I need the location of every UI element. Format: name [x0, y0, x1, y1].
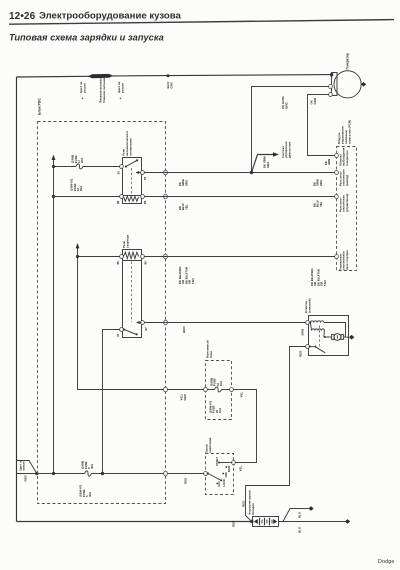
- node bus1 to feed row: [52, 472, 55, 475]
- svg-text:(выход): (выход): [345, 175, 349, 186]
- svg-text:RED: RED: [299, 350, 303, 357]
- svg-text:YEL: YEL: [184, 204, 188, 210]
- junction block dashed box: [206, 361, 232, 420]
- svg-text:Генератор: Генератор: [346, 53, 350, 69]
- pin PCM ASD relay control: [335, 194, 339, 198]
- svg-text:указан: указан: [82, 83, 86, 93]
- wire starter feed RED from battery: [246, 347, 307, 522]
- svg-text:START: START: [215, 457, 219, 466]
- arrow bus 1 continuation up: [52, 155, 56, 160]
- wire PDC bus 1 vertical: [53, 157, 55, 474]
- label fuse (1998) FUSE 15 10A: [210, 378, 224, 386]
- svg-text:зажигания: зажигания: [208, 437, 212, 453]
- svg-text:BRN: BRN: [301, 329, 305, 336]
- label wire DK GRN at riser: [310, 98, 318, 105]
- svg-text:+: +: [82, 97, 84, 101]
- wire left border feed down: [16, 77, 18, 522]
- node splice on top rail: [167, 74, 170, 77]
- wire to motor: [325, 336, 332, 338]
- pin junction block out: [230, 387, 234, 391]
- node junction to generator field: [250, 171, 253, 174]
- svg-text:агрегатом (PCM): агрегатом (PCM): [348, 120, 352, 144]
- svg-text:GRY: GRY: [170, 82, 174, 88]
- svg-text:RED: RED: [183, 393, 187, 400]
- label ignition switch name: [205, 437, 213, 453]
- wire PDC bus 2 vertical: [78, 246, 205, 390]
- label PCM name: [337, 120, 352, 144]
- label fuse (1996-97) FUSE 20 10A: [209, 401, 223, 413]
- svg-text:40A: 40A: [88, 492, 92, 497]
- svg-text:генератора: генератора: [345, 150, 349, 166]
- svg-text:указан: указан: [22, 461, 26, 470]
- svg-text:87: 87: [143, 176, 147, 180]
- label wire DK GRN/ORG: [178, 179, 188, 186]
- svg-text:отключения: отключения: [129, 138, 133, 156]
- wire K2 87 to starter solenoid BRN: [144, 322, 306, 324]
- node bus2 to starter relay coil row: [76, 255, 79, 258]
- starter solenoid pull-in winding: [310, 321, 324, 323]
- header rule: [9, 20, 394, 25]
- wire battery feed top rail (B+): [17, 75, 332, 77]
- svg-text:30: 30: [117, 171, 121, 175]
- label wire YEL/RED before junction block: [180, 393, 188, 400]
- label wire DK BLU/YEL at PCM: [313, 200, 323, 207]
- generator G1 body: [334, 71, 361, 98]
- node ignition RUN position: [225, 466, 227, 468]
- svg-text:двигателем: двигателем: [287, 142, 291, 158]
- node ignition START position: [218, 462, 220, 464]
- pin K1 30: [120, 164, 124, 168]
- svg-text:YEL: YEL: [239, 465, 243, 471]
- label wire DK GRN/ORG at branch: [263, 156, 270, 168]
- node junction starter relay feed: [101, 472, 104, 475]
- svg-text:Электрооборудование кузова: Электрооборудование кузова: [39, 11, 182, 22]
- label branch color not specified: [19, 459, 26, 475]
- svg-text:20A: 20A: [80, 158, 84, 163]
- pin PCM starter relay control: [335, 254, 339, 258]
- svg-text:86: 86: [116, 261, 120, 265]
- svg-text:10A: 10A: [218, 408, 222, 413]
- svg-text:BRN: BRN: [182, 327, 186, 334]
- fuse F-C symbol 10A: [215, 387, 222, 392]
- relay K2 dashed actuator link: [131, 262, 133, 323]
- wire K1 87 output to PCM: [144, 172, 335, 174]
- wire branch arrow to engine control system: [252, 155, 275, 173]
- wire battery negative to grounds: [279, 521, 346, 523]
- wire riser to generator terminal 2: [252, 87, 330, 173]
- wire motor to ground: [344, 336, 349, 338]
- label wire DK GRN/ORG at PCM: [313, 179, 323, 186]
- node junction ignition feed: [35, 472, 38, 475]
- node solenoid split: [309, 322, 311, 324]
- wire K1 85 to PCM control: [144, 196, 335, 198]
- svg-text:YEL: YEL: [240, 391, 244, 397]
- label battery name: [248, 490, 256, 515]
- arrow bus 2 continuation up: [76, 243, 80, 248]
- fusible link (main feed) thick bar: [88, 74, 113, 78]
- ignition switch arm to LOCK: [207, 472, 209, 474]
- svg-text:блок: блок: [209, 351, 213, 358]
- pin generator field 1: [329, 92, 333, 96]
- svg-text:RED: RED: [24, 474, 28, 481]
- pin ignition battery in: [204, 471, 208, 475]
- label fuse (1998) FUSE 17 20A: [71, 155, 85, 163]
- relay K2 starter relay body: [123, 250, 142, 338]
- relay K2 switch arm: [123, 328, 125, 330]
- relay K1 switch arm: [125, 165, 127, 167]
- label fuse (1996-97) FUSE 12 20A: [70, 179, 84, 191]
- PCM powertrain control module dashed box: [337, 147, 357, 271]
- pin starter battery feed: [306, 344, 310, 348]
- svg-text:ACC: ACC: [217, 481, 221, 487]
- fuse F-B symbol 40A: [85, 471, 92, 476]
- svg-text:реле стартера: реле стартера: [345, 250, 349, 270]
- svg-text:86: 86: [116, 200, 120, 204]
- svg-text:TAN: TAN: [323, 280, 327, 286]
- wire ground branch diagonal: [283, 509, 309, 522]
- wire bottom battery negative run: [17, 521, 252, 523]
- label starter name: [304, 299, 312, 313]
- svg-text:+: +: [120, 97, 122, 101]
- svg-text:RED: RED: [232, 520, 236, 527]
- connector pins on PDC boundary: [164, 170, 168, 175]
- label wire options DK BLU/ORG OR DK BLU/TAN OR TAN at PCM: [310, 268, 327, 286]
- svg-text:(типовой): (типовой): [308, 299, 312, 313]
- pin K2 86: [120, 254, 124, 258]
- label fuse (1996-97) FUSE 5 40A: [79, 485, 93, 497]
- ignition switch S1 dashed box: [206, 454, 234, 495]
- svg-text:ORG: ORG: [319, 180, 323, 186]
- wire junction block to ignition START: [233, 390, 256, 463]
- svg-text:RED: RED: [184, 477, 188, 484]
- svg-text:Dodge: Dodge: [378, 559, 394, 565]
- label wire DK GRN/ORG at riser top: [281, 96, 289, 109]
- pin K2 87 with contact arrow: [141, 320, 145, 324]
- wire branch shelf to ignition feed: [17, 461, 37, 474]
- label fusible link color right: not specified: [117, 81, 124, 100]
- svg-text:Блок PDC: Блок PDC: [38, 98, 42, 115]
- starter solenoid hold-in winding: [310, 323, 324, 338]
- wire ASD relay coil 86 feed: [54, 196, 120, 198]
- fuse F-A symbol 20A: [76, 164, 83, 169]
- label fusible link color left: not specified: [79, 81, 86, 100]
- svg-text:GRN: GRN: [313, 98, 317, 105]
- wire starter relay coil 86 feed: [78, 256, 120, 258]
- node bus1 to relay coil row: [52, 195, 55, 198]
- motor armature symbol: [332, 335, 335, 340]
- svg-text:RED: RED: [241, 500, 245, 507]
- svg-text:ORG: ORG: [184, 180, 188, 186]
- wire K2 85 to PCM starter relay control: [144, 256, 335, 258]
- starter switch arm: [309, 346, 311, 348]
- svg-text:BLK: BLK: [298, 511, 302, 518]
- svg-text:10A: 10A: [219, 381, 223, 386]
- svg-text:(управление): (управление): [345, 194, 349, 212]
- relay K1 ASD auto shutdown relay body: [123, 158, 142, 204]
- ground case generator: [361, 82, 366, 87]
- wire fuse row to ASD relay 30: [54, 166, 77, 168]
- label fusible link name: [99, 77, 107, 103]
- svg-text:стартера: стартера: [126, 234, 130, 248]
- node junction battery positive: [250, 520, 253, 523]
- relay K2 coil winding: [124, 252, 139, 258]
- label relay K2 name: [122, 234, 130, 248]
- label engine control system destination: [281, 141, 291, 158]
- ground engine block: [308, 506, 313, 511]
- wire winding to motor feed: [324, 323, 346, 338]
- svg-text:85: 85: [144, 261, 148, 265]
- pin K1 86: [120, 194, 124, 198]
- svg-text:ORG: ORG: [266, 162, 270, 168]
- label wire options DK BLU/ORG OR DK BLU/TAN OR TAN mid: [178, 266, 195, 284]
- svg-text:LOCK: LOCK: [222, 479, 226, 487]
- pin PCM generator field: [335, 153, 339, 157]
- svg-text:ORG: ORG: [285, 102, 289, 110]
- svg-text:OFF: OFF: [224, 472, 228, 478]
- pin K2 30: [120, 327, 124, 331]
- pin K2 85: [141, 254, 145, 258]
- node ignition OFF position: [222, 473, 224, 475]
- svg-text:TAN: TAN: [191, 278, 195, 284]
- node ignition ACC position: [216, 483, 218, 485]
- starter M1 body: [309, 316, 349, 356]
- svg-text:указан: указан: [120, 83, 124, 93]
- pin K1 85: [141, 194, 145, 198]
- starter solenoid dashed link: [319, 326, 321, 348]
- pin ignition START out: [232, 460, 236, 464]
- label wire DK GRN at PCM: [324, 159, 331, 165]
- svg-text:батарея: батарея: [251, 503, 255, 515]
- relay K1 dashed actuator link: [131, 168, 133, 195]
- wire generator field 1 to PCM: [308, 95, 336, 156]
- svg-text:40A: 40A: [90, 464, 94, 469]
- battery BT1 symbol: [253, 517, 279, 527]
- pin generator B+: [330, 73, 333, 76]
- label wire BLK/GRY: [166, 81, 174, 88]
- node bus1 to fuse row: [52, 165, 55, 168]
- svg-text:85: 85: [143, 200, 147, 204]
- ground starter case: [349, 335, 354, 340]
- PDC power distribution centre dashed box: [38, 122, 166, 504]
- svg-text:12•26: 12•26: [9, 11, 36, 22]
- label fuse (1998) FUSE 8 40A: [81, 461, 95, 469]
- label wire DK BLU/YEL: [178, 203, 188, 210]
- label relay K1 name: [122, 131, 133, 156]
- ground body: [345, 519, 350, 524]
- pin K1 87 with contact arrow: [141, 170, 145, 174]
- pin PCM ASD relay output: [335, 170, 339, 174]
- svg-text:30: 30: [116, 333, 120, 337]
- svg-text:87: 87: [144, 327, 148, 331]
- svg-text:GRN: GRN: [327, 159, 331, 165]
- relay K1 coil winding: [124, 196, 139, 201]
- node motor input: [324, 336, 326, 338]
- svg-text:20A: 20A: [79, 186, 83, 191]
- svg-text:Главное питание: Главное питание: [102, 77, 106, 103]
- svg-text:RUN: RUN: [227, 466, 231, 472]
- generator terminal bracket: [332, 73, 338, 96]
- wire through junction block: [207, 389, 214, 391]
- svg-text:BLK: BLK: [298, 526, 302, 533]
- svg-text:Типовая схема зарядки и запуск: Типовая схема зарядки и запуска: [9, 33, 164, 43]
- wire starter relay 30 feed: [103, 330, 120, 474]
- svg-text:YEL: YEL: [319, 201, 323, 207]
- wire ignition switch feed row: [17, 473, 85, 475]
- pin junction block in: [204, 387, 208, 391]
- label junction block name: [206, 340, 214, 358]
- pin starter solenoid: [306, 320, 310, 324]
- pin generator field 2: [329, 84, 333, 88]
